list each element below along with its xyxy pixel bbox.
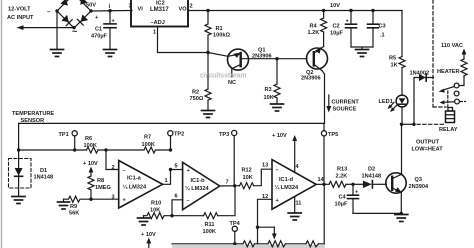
ground bbox=[12, 197, 25, 204]
op-amp IC1-b bbox=[183, 162, 220, 209]
ground bbox=[51, 50, 64, 57]
svg-text:R11: R11 bbox=[205, 222, 215, 228]
svg-text:LM317: LM317 bbox=[150, 7, 169, 13]
resistor R10 with ground bbox=[143, 216, 145, 218]
wire R8/R9 node to pin 3 bbox=[91, 198, 119, 200]
svg-text:R3: R3 bbox=[265, 87, 272, 93]
jog to pin 13 bbox=[254, 169, 272, 186]
svg-text:12-VOLT: 12-VOLT bbox=[8, 7, 31, 13]
svg-text:R13: R13 bbox=[337, 167, 347, 173]
svg-text:OUTPUT: OUTPUT bbox=[416, 140, 440, 146]
svg-text:2: 2 bbox=[190, 4, 193, 10]
diode D2 1N4148 bbox=[353, 183, 363, 185]
relay contacts bbox=[454, 83, 459, 88]
svg-text:470µF: 470µF bbox=[91, 34, 108, 40]
IC1-a output wire bbox=[163, 170, 171, 185]
svg-text:R1: R1 bbox=[216, 26, 223, 32]
svg-text:10µF: 10µF bbox=[330, 31, 343, 37]
svg-text:R7: R7 bbox=[144, 135, 151, 141]
svg-text:1.2K: 1.2K bbox=[308, 30, 320, 36]
svg-text:HEATER: HEATER bbox=[437, 69, 460, 75]
svg-text:R12: R12 bbox=[242, 168, 252, 174]
sensor dashed box bbox=[9, 159, 32, 189]
svg-text:2N3904: 2N3904 bbox=[409, 184, 429, 190]
svg-text:10K: 10K bbox=[150, 208, 160, 214]
Q2 collector wire / current-source rail bbox=[19, 74, 325, 123]
resistor R3 bbox=[276, 59, 278, 84]
svg-text:TP4: TP4 bbox=[230, 221, 241, 227]
test point TP2 bbox=[168, 131, 173, 136]
svg-text:¼ LM324: ¼ LM324 bbox=[185, 185, 210, 192]
svg-text:+ 10V: + 10V bbox=[141, 232, 156, 238]
svg-text:+ 10V: + 10V bbox=[83, 161, 98, 167]
svg-text:R4: R4 bbox=[310, 24, 318, 30]
transistor Q2 2N3906 bbox=[307, 48, 328, 69]
12-volt AC input label bbox=[7, 7, 34, 22]
svg-text:IC1-b: IC1-b bbox=[191, 178, 206, 184]
watermark bbox=[200, 73, 246, 80]
output label bbox=[412, 140, 444, 153]
relay coil bbox=[448, 108, 453, 112]
svg-text:¼ LM324: ¼ LM324 bbox=[275, 184, 300, 191]
svg-text:circuitsstream: circuitsstream bbox=[200, 73, 246, 80]
node to Q3 collector bbox=[401, 124, 403, 174]
test point TP3 bbox=[232, 130, 237, 135]
svg-text:10K: 10K bbox=[243, 175, 253, 181]
capacitor C2 bbox=[350, 11, 352, 25]
svg-text:100K: 100K bbox=[84, 143, 97, 149]
IC1-d output wire bbox=[316, 183, 329, 185]
resistor R13 bbox=[329, 181, 346, 187]
svg-text:5: 5 bbox=[175, 164, 178, 170]
svg-text:10µF: 10µF bbox=[335, 202, 348, 208]
svg-text:SENSOR: SENSOR bbox=[21, 118, 45, 124]
capacitor C4 bbox=[352, 184, 354, 195]
svg-text:R5: R5 bbox=[389, 56, 396, 62]
svg-text:10K: 10K bbox=[264, 95, 274, 101]
svg-text:1K: 1K bbox=[391, 63, 398, 69]
svg-text:6: 6 bbox=[175, 194, 178, 200]
svg-text:1N4148: 1N4148 bbox=[34, 175, 54, 181]
resistor R8 bbox=[88, 176, 94, 190]
current source arrow bbox=[328, 95, 330, 107]
IC1-a input pin 2 wire bbox=[106, 150, 119, 170]
svg-text:R6: R6 bbox=[85, 136, 92, 142]
svg-text:11: 11 bbox=[296, 201, 302, 207]
svg-text:3: 3 bbox=[129, 4, 132, 10]
svg-text:C4: C4 bbox=[339, 195, 347, 201]
AC input arrow bbox=[21, 27, 74, 29]
svg-text:10V: 10V bbox=[330, 3, 340, 9]
pin 11 ground bbox=[294, 196, 296, 212]
svg-text:C3: C3 bbox=[379, 24, 386, 30]
svg-text:VI: VI bbox=[138, 7, 144, 13]
svg-text:R8: R8 bbox=[97, 178, 104, 184]
svg-text:100K: 100K bbox=[142, 142, 155, 148]
resistor R2 bbox=[207, 53, 209, 90]
svg-text:13: 13 bbox=[262, 163, 268, 169]
capacitor C1 bbox=[109, 11, 111, 24]
bridge rectifier BR1 bbox=[57, 0, 91, 28]
svg-text:50V: 50V bbox=[86, 3, 96, 9]
resistor R11 bbox=[172, 215, 204, 217]
svg-text:D2: D2 bbox=[368, 167, 375, 173]
capacitor C3 bbox=[372, 11, 374, 25]
pin 12 wire to pot wiper bbox=[258, 199, 273, 244]
svg-text:+ 10V: + 10V bbox=[272, 133, 287, 139]
svg-text:IC2: IC2 bbox=[156, 1, 165, 7]
C2/C3 common ground bbox=[351, 47, 373, 49]
svg-text:3: 3 bbox=[112, 195, 115, 201]
svg-text:1N4002: 1N4002 bbox=[410, 71, 430, 77]
svg-text:100kΩ: 100kΩ bbox=[213, 33, 230, 39]
svg-text:RELAY: RELAY bbox=[439, 127, 458, 133]
svg-text:110 VAC: 110 VAC bbox=[441, 43, 463, 49]
divider rail R6/R7 bbox=[19, 149, 87, 151]
svg-text:VO: VO bbox=[179, 7, 188, 13]
svg-text:C1: C1 bbox=[95, 27, 102, 33]
svg-text:CURRENT: CURRENT bbox=[332, 100, 360, 106]
svg-text:AC INPUT: AC INPUT bbox=[7, 15, 34, 21]
ADJ wire bbox=[158, 27, 209, 53]
svg-text:SOURCE: SOURCE bbox=[333, 107, 357, 113]
svg-text:–: – bbox=[276, 168, 279, 174]
svg-text:Q3: Q3 bbox=[415, 177, 422, 183]
svg-text:LED1: LED1 bbox=[379, 99, 393, 105]
IC1-b output wire + R12 bbox=[220, 185, 240, 187]
svg-text:R10: R10 bbox=[151, 201, 161, 207]
svg-text:¼ LM324: ¼ LM324 bbox=[123, 184, 148, 191]
bottom rail with resistors bbox=[172, 245, 325, 248]
svg-text:1: 1 bbox=[153, 30, 156, 36]
svg-text:1MEG: 1MEG bbox=[95, 185, 111, 191]
Q1 base wire to Q2 base bbox=[242, 58, 307, 60]
transistor Q3 2N3904 bbox=[386, 173, 406, 193]
Q3 emitter/C4 ground bbox=[353, 212, 401, 214]
svg-text:56K: 56K bbox=[69, 211, 79, 217]
svg-text:R9: R9 bbox=[70, 204, 77, 210]
resistor R5 bbox=[401, 11, 403, 57]
svg-text:2: 2 bbox=[112, 165, 115, 171]
svg-text:R2: R2 bbox=[192, 90, 199, 96]
ground bbox=[202, 111, 215, 118]
svg-text:TP1: TP1 bbox=[59, 132, 69, 138]
pin 4 +10V bbox=[294, 139, 296, 172]
svg-text:C2: C2 bbox=[333, 24, 340, 30]
ground bbox=[104, 50, 117, 57]
sensor wire down bbox=[18, 123, 20, 196]
transistor Q1 2N3906 bbox=[228, 49, 249, 70]
svg-text:2.2K: 2.2K bbox=[336, 174, 348, 180]
svg-text:TP2: TP2 bbox=[174, 132, 184, 138]
svg-text:NC: NC bbox=[228, 80, 236, 86]
wire bridge + to LM317 VI bbox=[91, 10, 132, 13]
test point TP5 bbox=[321, 131, 326, 136]
svg-text:IC1-d: IC1-d bbox=[279, 177, 294, 183]
wire bridge minus to ground bbox=[56, 11, 58, 49]
svg-text:750Ω: 750Ω bbox=[190, 96, 204, 102]
svg-text:~: ~ bbox=[72, 27, 77, 37]
op-amp IC1-a bbox=[119, 161, 163, 209]
svg-text:1N4148: 1N4148 bbox=[362, 174, 382, 180]
svg-text:–ADJ: –ADJ bbox=[151, 20, 165, 26]
IC1-b pin 6 wire bbox=[172, 200, 183, 216]
svg-text:7: 7 bbox=[226, 180, 229, 186]
ground bbox=[271, 104, 284, 111]
op-amp IC1-d bbox=[272, 160, 316, 210]
resistor R4 bbox=[323, 11, 325, 19]
diode D1 1N4148 bbox=[15, 168, 23, 176]
test point TP1 bbox=[72, 131, 77, 136]
svg-text:1: 1 bbox=[165, 178, 168, 184]
resistor R1 bbox=[207, 11, 209, 25]
svg-text:IC1-a: IC1-a bbox=[127, 176, 142, 182]
svg-text:LOW=HEAT: LOW=HEAT bbox=[412, 147, 444, 153]
svg-text:TP3: TP3 bbox=[219, 132, 229, 138]
regulator IC2 LM317 bbox=[131, 0, 188, 27]
diode D3 1N4002 bbox=[414, 78, 434, 125]
+10V label bottom bbox=[141, 232, 156, 238]
svg-text:.1: .1 bbox=[380, 33, 385, 39]
svg-text:–: – bbox=[187, 198, 190, 204]
10V rail from VO bbox=[189, 10, 403, 12]
svg-text:100K: 100K bbox=[203, 229, 216, 235]
LED1 bbox=[396, 95, 408, 107]
110 VAC feed bbox=[441, 43, 463, 49]
isolation dashed line bbox=[432, 0, 434, 106]
+10V supply to R8 bbox=[83, 161, 98, 167]
svg-text:TEMPERATURE: TEMPERATURE bbox=[12, 111, 54, 117]
svg-text:–: – bbox=[123, 168, 126, 174]
heater element bbox=[461, 59, 467, 76]
temperature sensor label bbox=[12, 111, 54, 124]
svg-text:D1: D1 bbox=[40, 168, 47, 174]
test point TP4 bbox=[232, 226, 237, 231]
scan edge artifact bbox=[1, 0, 3, 248]
svg-text:TP5: TP5 bbox=[328, 132, 338, 138]
svg-text:2N3906: 2N3906 bbox=[301, 76, 321, 82]
resistor R9 with ground bbox=[58, 202, 70, 209]
